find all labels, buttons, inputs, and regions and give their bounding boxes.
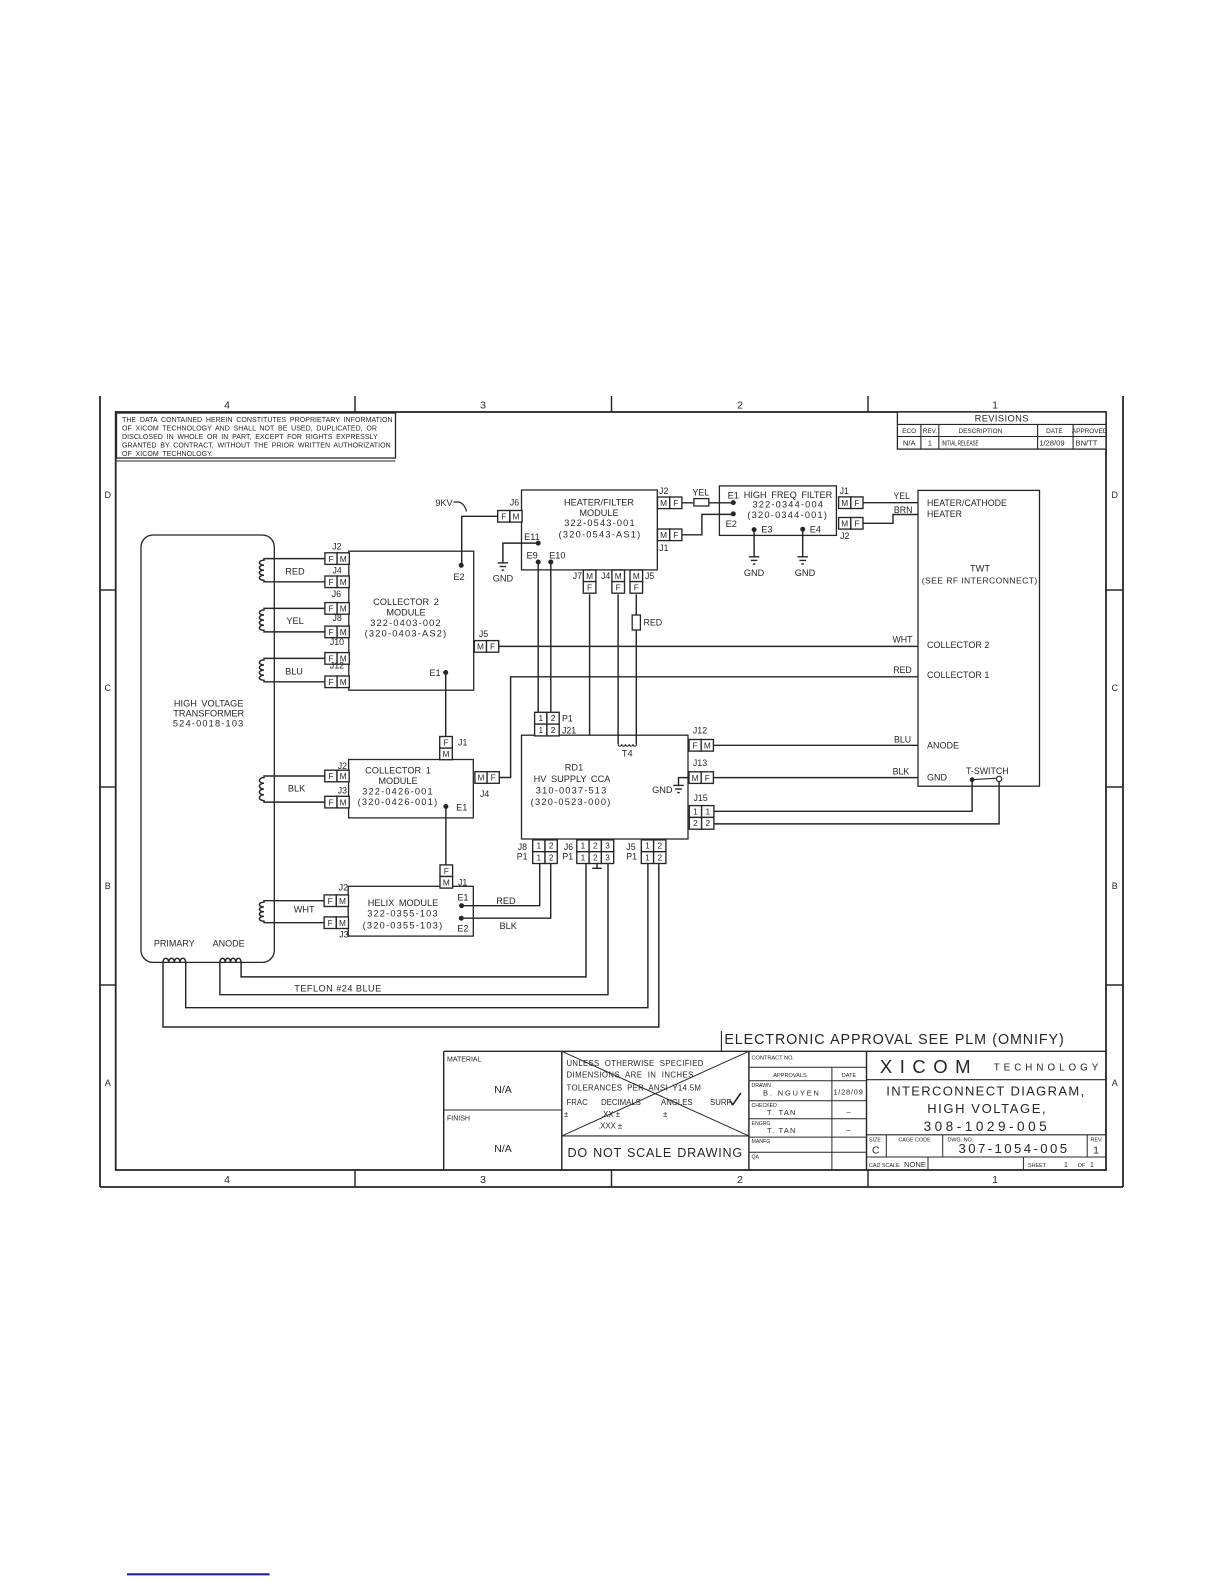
svg-text:M: M	[340, 771, 347, 781]
svg-text:.XXX ±: .XXX ±	[598, 1122, 623, 1131]
connector P1/J21 (RD1 top)	[535, 712, 547, 724]
svg-text:±: ±	[564, 1110, 569, 1119]
svg-text:.XX ±: .XX ±	[601, 1110, 621, 1119]
svg-text:REV.: REV.	[923, 428, 938, 435]
svg-text:BLU: BLU	[894, 734, 911, 744]
svg-text:1: 1	[992, 400, 998, 412]
svg-text:M: M	[340, 577, 347, 587]
terminal E4 of HF filter with ground	[800, 527, 805, 532]
svg-text:APPROVALS: APPROVALS	[773, 1073, 807, 1079]
svg-text:1: 1	[1090, 1162, 1094, 1169]
wire: YEL heater line (HF filter J1 to TWT)	[863, 502, 918, 504]
svg-text:F: F	[328, 918, 333, 928]
wire: RD1 J6/P1 pin3 to ANODE winding left lead	[220, 863, 608, 995]
svg-text:F: F	[444, 866, 449, 876]
svg-text:QA: QA	[752, 1154, 760, 1160]
svg-text:J2: J2	[840, 531, 849, 541]
svg-text:M: M	[443, 877, 450, 887]
termination stub on RD1 J6/P1 pin2	[596, 863, 598, 868]
svg-text:M: M	[692, 773, 699, 783]
svg-text:322-0403-002: 322-0403-002	[370, 618, 442, 628]
svg-text:E9: E9	[526, 550, 537, 560]
svg-text:BN/TT: BN/TT	[1076, 439, 1098, 448]
svg-text:J5: J5	[626, 842, 635, 852]
svg-text:J1: J1	[458, 877, 467, 887]
svg-text:F: F	[328, 896, 333, 906]
svg-text:E2: E2	[453, 572, 464, 582]
connector J1 (heater/filter right, M/F)	[658, 529, 670, 541]
wire: heater/filter J1 to HF filter E2	[682, 514, 733, 534]
svg-text:INITIAL RELEASE: INITIAL RELEASE	[942, 438, 979, 447]
svg-text:J5: J5	[645, 571, 654, 581]
svg-text:2: 2	[705, 818, 710, 828]
ground GND (E4)	[798, 556, 808, 558]
svg-text:THE DATA CONTAINED HEREIN CONS: THE DATA CONTAINED HEREIN CONSTITUTES PR…	[122, 417, 393, 424]
svg-text:GND: GND	[744, 568, 765, 578]
svg-text:J13: J13	[693, 758, 707, 768]
svg-text:J12: J12	[330, 661, 344, 671]
svg-text:RD1: RD1	[565, 763, 583, 773]
svg-text:J10: J10	[330, 637, 344, 647]
svg-text:COLLECTOR 2: COLLECTOR 2	[927, 640, 989, 650]
svg-text:B: B	[1112, 881, 1118, 891]
svg-text:M: M	[340, 677, 347, 687]
module: TWT (SEE RF INTERCONNECT)	[918, 490, 1040, 786]
svg-text:E1: E1	[457, 893, 468, 903]
svg-text:1/28/09: 1/28/09	[1039, 439, 1064, 448]
svg-text:M: M	[339, 918, 346, 928]
wire: collector1 E1 to helix J1	[445, 807, 447, 865]
svg-text:C: C	[1112, 683, 1119, 693]
wire: RD1 J6/P1 pin1 to ANODE winding right lead	[241, 863, 586, 977]
svg-text:–: –	[847, 1126, 851, 1135]
svg-text:F: F	[854, 498, 859, 508]
svg-text:T4: T4	[622, 749, 633, 759]
terminal E1 of collector 2 module	[443, 670, 448, 675]
svg-text:BLK: BLK	[288, 784, 306, 794]
ground GND (E3)	[749, 556, 759, 558]
svg-text:DIMENSIONS ARE IN INCHES: DIMENSIONS ARE IN INCHES	[567, 1071, 694, 1080]
svg-text:4: 4	[224, 400, 230, 412]
svg-text:F: F	[587, 583, 592, 593]
svg-text:F: F	[328, 677, 333, 687]
svg-text:1: 1	[693, 806, 698, 816]
svg-text:F: F	[501, 512, 506, 522]
svg-text:E10: E10	[549, 550, 565, 560]
ground GND (heater/filter E11)	[498, 562, 508, 564]
svg-text:M: M	[841, 498, 848, 508]
svg-text:OF: OF	[1078, 1163, 1086, 1169]
svg-text:BLU: BLU	[285, 666, 303, 676]
svg-text:±: ±	[663, 1110, 668, 1119]
svg-text:(320-0543-AS1): (320-0543-AS1)	[559, 529, 642, 539]
svg-text:HIGH VOLTAGE: HIGH VOLTAGE	[174, 699, 244, 709]
svg-text:FINISH: FINISH	[447, 1116, 470, 1123]
wire: T-switch NO contact to RD1 J15 pin 2	[714, 782, 999, 824]
svg-text:F: F	[673, 498, 678, 508]
svg-text:P1: P1	[562, 713, 573, 723]
svg-text:TECHNOLOGY: TECHNOLOGY	[994, 1063, 1103, 1074]
svg-text:DATE: DATE	[842, 1073, 857, 1079]
svg-text:ANODE: ANODE	[213, 939, 245, 949]
svg-text:J3: J3	[339, 930, 348, 940]
svg-text:F: F	[673, 530, 678, 540]
svg-text:INTERCONNECT DIAGRAM,: INTERCONNECT DIAGRAM,	[886, 1084, 1085, 1099]
svg-text:HV SUPPLY CCA: HV SUPPLY CCA	[534, 774, 612, 784]
wire: heater/filter J5 to T4 (RED sleeve)	[635, 594, 637, 744]
svg-text:T. TAN: T. TAN	[767, 1108, 797, 1117]
module: HEATER/FILTER MODULE 322-0543-001	[522, 490, 658, 570]
svg-text:J8: J8	[518, 842, 527, 852]
ferrite bead YEL	[694, 499, 709, 506]
svg-text:ECO: ECO	[902, 428, 916, 435]
svg-text:4: 4	[224, 1174, 230, 1186]
svg-text:YEL: YEL	[893, 491, 910, 501]
svg-text:1: 1	[928, 439, 932, 448]
svg-text:YEL: YEL	[286, 616, 303, 626]
winding BLK (transformer to collector1 J2/J3)	[259, 776, 324, 802]
svg-text:(320-0523-000): (320-0523-000)	[531, 797, 612, 807]
svg-text:N/A: N/A	[903, 439, 917, 448]
svg-text:(SEE RF INTERCONNECT): (SEE RF INTERCONNECT)	[922, 576, 1038, 586]
svg-text:ANODE: ANODE	[927, 741, 959, 751]
svg-text:SURF.: SURF.	[710, 1098, 733, 1107]
svg-text:9KV: 9KV	[435, 498, 453, 508]
svg-text:WHT: WHT	[892, 634, 913, 644]
wire: BLU anode line (RD1 J12 to TWT)	[713, 744, 918, 746]
wire: heater/filter J4 to T4	[617, 594, 619, 744]
svg-text:HIGH VOLTAGE,: HIGH VOLTAGE,	[927, 1101, 1047, 1116]
winding YEL (transformer to collector2 J6/J8)	[259, 608, 324, 632]
svg-text:2: 2	[693, 818, 698, 828]
svg-text:2: 2	[737, 1174, 743, 1186]
svg-text:DO NOT SCALE DRAWING: DO NOT SCALE DRAWING	[567, 1146, 742, 1160]
svg-text:F: F	[490, 642, 495, 652]
svg-text:P1: P1	[626, 852, 637, 862]
svg-text:524-0018-103: 524-0018-103	[173, 718, 245, 728]
sleeve RED on J5 wire	[632, 615, 640, 630]
svg-text:–: –	[847, 1108, 851, 1117]
connector J3 (helix, F/M)	[324, 917, 336, 929]
svg-text:J4: J4	[601, 571, 610, 581]
svg-text:UNLESS OTHERWISE SPECIFIED: UNLESS OTHERWISE SPECIFIED	[567, 1059, 704, 1068]
svg-text:F: F	[705, 773, 710, 783]
svg-text:M: M	[477, 642, 484, 652]
svg-text:DATE: DATE	[1046, 428, 1063, 435]
svg-text:F: F	[693, 741, 698, 751]
svg-text:2: 2	[593, 853, 598, 863]
svg-text:F: F	[443, 737, 448, 747]
wire: T-switch common to RD1 J15 pin 1	[714, 780, 972, 812]
svg-text:308-1029-005: 308-1029-005	[924, 1119, 1051, 1134]
svg-text:HEATER/CATHODE: HEATER/CATHODE	[927, 498, 1007, 508]
svg-text:DECIMALS: DECIMALS	[601, 1098, 641, 1107]
svg-text:F: F	[328, 554, 333, 564]
terminal E1 of helix module	[459, 903, 464, 908]
svg-text:1: 1	[538, 713, 543, 723]
svg-text:(320-0344-001): (320-0344-001)	[747, 510, 828, 520]
svg-text:C: C	[105, 683, 112, 693]
module: RD1 HV SUPPLY CCA 310-0037-513	[522, 735, 689, 839]
svg-text:COLLECTOR 1: COLLECTOR 1	[365, 765, 431, 775]
svg-text:CONTRACT NO.: CONTRACT NO.	[752, 1056, 795, 1062]
svg-text:J1: J1	[458, 737, 467, 747]
connector J2 (HF filter right, M/F)	[839, 518, 851, 530]
svg-text:310-0037-513: 310-0037-513	[536, 785, 608, 795]
svg-text:TWT: TWT	[970, 563, 990, 573]
svg-text:1: 1	[538, 725, 543, 735]
(scan artifact) blue underline	[127, 1573, 270, 1575]
svg-text:GND: GND	[795, 568, 816, 578]
svg-text:3: 3	[605, 853, 610, 863]
svg-text:1: 1	[645, 853, 650, 863]
svg-text:MODULE: MODULE	[579, 508, 618, 518]
winding WHT (transformer to helix J2/J3)	[259, 901, 324, 923]
svg-text:J1: J1	[659, 543, 668, 553]
svg-text:NONE: NONE	[904, 1160, 926, 1169]
svg-text:B. NGUYEN: B. NGUYEN	[763, 1088, 821, 1097]
svg-text:SHEET: SHEET	[1028, 1163, 1047, 1169]
svg-text:1: 1	[537, 841, 542, 851]
transformer T1: HIGH VOLTAGE TRANSFORMER 524-0018-103	[141, 535, 274, 962]
svg-text:E4: E4	[810, 524, 821, 534]
svg-text:3: 3	[605, 841, 610, 851]
svg-text:(320-0355-103): (320-0355-103)	[363, 921, 444, 931]
svg-text:J8: J8	[333, 613, 342, 623]
svg-text:M: M	[443, 749, 450, 759]
wire: E10 to RD1 P1 pin 2	[550, 562, 552, 712]
svg-text:HEATER: HEATER	[927, 509, 962, 519]
svg-text:M: M	[704, 741, 711, 751]
svg-text:ANGLES: ANGLES	[661, 1098, 693, 1107]
wire: BLK ground line (RD1 J13 to TWT)	[713, 777, 918, 779]
svg-text:GND: GND	[652, 785, 673, 795]
svg-text:COLLECTOR 2: COLLECTOR 2	[373, 597, 439, 607]
svg-text:TRANSFORMER: TRANSFORMER	[173, 708, 244, 718]
svg-text:2: 2	[657, 841, 662, 851]
wire: 9KV net from J6 heater/filter to E2 collector 2	[462, 516, 498, 565]
svg-text:1: 1	[1093, 1145, 1099, 1157]
terminal E3 of HF filter with ground	[752, 527, 757, 532]
wire: WHT collector 2 line (J5 to TWT)	[498, 645, 918, 647]
svg-text:2: 2	[549, 853, 554, 863]
svg-text:J2: J2	[659, 486, 668, 496]
wire: RED collector 1 line (J4 to TWT)	[499, 677, 918, 778]
terminal E2 of collector 2 module	[459, 563, 464, 568]
connector J4 (collector 1 right, M/F)	[475, 772, 487, 784]
svg-text:F: F	[328, 797, 333, 807]
svg-text:J15: J15	[694, 793, 708, 803]
svg-text:REV.: REV.	[1090, 1138, 1102, 1144]
svg-text:M: M	[615, 571, 622, 581]
svg-text:M: M	[660, 498, 667, 508]
svg-text:WHT: WHT	[294, 905, 315, 915]
svg-text:M: M	[478, 773, 485, 783]
svg-text:J2: J2	[332, 541, 341, 551]
svg-text:M: M	[339, 896, 346, 906]
svg-text:322-0426-001: 322-0426-001	[362, 786, 434, 796]
svg-text:2: 2	[657, 853, 662, 863]
svg-text:A: A	[1112, 1078, 1118, 1088]
svg-text:SIZE: SIZE	[869, 1138, 881, 1144]
svg-text:P1: P1	[517, 852, 528, 862]
svg-text:E1: E1	[728, 490, 739, 500]
svg-text:HEATER/FILTER: HEATER/FILTER	[564, 497, 634, 507]
svg-text:M: M	[660, 530, 667, 540]
svg-text:BLK: BLK	[893, 766, 910, 776]
svg-text:FRAC: FRAC	[567, 1098, 589, 1107]
svg-text:APPROVED: APPROVED	[1072, 428, 1108, 435]
svg-text:1: 1	[537, 853, 542, 863]
svg-text:J12: J12	[693, 725, 707, 735]
svg-text:DESCRIPTION: DESCRIPTION	[959, 428, 1003, 435]
svg-text:J4: J4	[480, 789, 489, 799]
svg-text:F: F	[491, 773, 496, 783]
svg-text:322-0543-001: 322-0543-001	[564, 518, 636, 528]
svg-text:E1: E1	[456, 802, 467, 812]
svg-text:J6: J6	[510, 498, 519, 508]
svg-text:M: M	[340, 797, 347, 807]
wire: RED helix E1 to RD1 J8/P1 pin1	[462, 863, 540, 906]
module: HIGH FREQ FILTER 322-0344-004	[719, 486, 836, 536]
svg-text:322-0344-004: 322-0344-004	[752, 499, 824, 509]
svg-text:REVISIONS: REVISIONS	[975, 414, 1029, 424]
svg-text:GRANTED BY CONTRACT, WITHOUT T: GRANTED BY CONTRACT, WITHOUT THE PRIOR W…	[122, 443, 391, 450]
svg-text:1: 1	[581, 841, 586, 851]
svg-text:2: 2	[551, 725, 556, 735]
svg-text:MANFG: MANFG	[752, 1139, 771, 1145]
svg-text:COLLECTOR 1: COLLECTOR 1	[927, 670, 989, 680]
svg-text:TEFLON #24 BLUE: TEFLON #24 BLUE	[294, 984, 381, 994]
svg-text:F: F	[328, 577, 333, 587]
svg-text:B: B	[105, 881, 111, 891]
svg-text:RED: RED	[285, 566, 305, 576]
svg-text:(320-0403-AS2): (320-0403-AS2)	[365, 628, 448, 638]
svg-text:M: M	[340, 627, 347, 637]
svg-text:J1: J1	[840, 486, 849, 496]
svg-text:ELECTRONIC APPROVAL SEE PLM: ELECTRONIC APPROVAL SEE PLM (OMNIFY)	[724, 1032, 1064, 1048]
svg-text:322-0355-103: 322-0355-103	[367, 908, 439, 918]
svg-text:E2: E2	[726, 519, 737, 529]
svg-text:N/A: N/A	[494, 1143, 512, 1155]
winding RED (transformer to collector2 J2/J4)	[259, 559, 324, 582]
svg-text:MATERIAL: MATERIAL	[447, 1057, 482, 1064]
svg-text:1: 1	[992, 1174, 998, 1186]
svg-text:2: 2	[549, 841, 554, 851]
module: COLLECTOR 1 MODULE 322-0426-001	[349, 760, 474, 818]
module: HELIX MODULE 322-0355-103	[348, 886, 473, 936]
svg-text:PRIMARY: PRIMARY	[154, 939, 195, 949]
svg-text:E2: E2	[457, 924, 468, 934]
svg-text:3: 3	[480, 1174, 486, 1186]
svg-text:M: M	[513, 512, 520, 522]
svg-text:MODULE: MODULE	[386, 607, 425, 617]
svg-text:J21: J21	[562, 726, 576, 736]
wire: BLK helix E2 to RD1 J8/P1 pin2	[461, 863, 551, 918]
terminal E2 of helix module	[459, 916, 464, 921]
svg-text:J6: J6	[332, 589, 341, 599]
svg-text:D: D	[105, 490, 112, 500]
svg-text:M: M	[586, 571, 593, 581]
svg-text:J2: J2	[338, 761, 347, 771]
svg-text:BRN: BRN	[894, 505, 913, 515]
wire: RD1 J5/P1 pin2 to PRIMARY winding left lead	[163, 863, 659, 1027]
svg-text:D: D	[1112, 490, 1119, 500]
svg-text:HELIX MODULE: HELIX MODULE	[368, 898, 438, 908]
svg-text:2: 2	[737, 400, 743, 412]
svg-text:J7: J7	[573, 571, 582, 581]
svg-text:F: F	[854, 519, 859, 529]
svg-text:307-1054-005: 307-1054-005	[959, 1141, 1070, 1156]
svg-text:2: 2	[593, 841, 598, 851]
svg-text:1: 1	[705, 806, 710, 816]
svg-text:E1: E1	[429, 668, 440, 678]
wire: heater/filter J7 to RD1 top	[589, 594, 591, 735]
svg-text:GND: GND	[927, 773, 948, 783]
svg-text:RED: RED	[893, 665, 912, 675]
svg-text:1: 1	[1064, 1162, 1068, 1169]
svg-text:YEL: YEL	[692, 488, 709, 498]
svg-text:J5: J5	[479, 629, 488, 639]
ground GND (RD1 J13)	[679, 778, 690, 786]
svg-text:A: A	[105, 1078, 111, 1088]
svg-text:F: F	[616, 583, 621, 593]
svg-text:CAGE CODE: CAGE CODE	[898, 1138, 931, 1144]
svg-text:2: 2	[551, 713, 556, 723]
svg-text:3: 3	[480, 400, 486, 412]
svg-text:1: 1	[645, 841, 650, 851]
svg-text:J3: J3	[338, 786, 347, 796]
svg-text:BLK: BLK	[500, 921, 518, 931]
svg-text:1: 1	[581, 853, 586, 863]
svg-text:F: F	[328, 627, 333, 637]
svg-text:F: F	[634, 583, 639, 593]
winding BLU (transformer to collector2 J10/J12)	[259, 658, 324, 681]
svg-text:CAD SCALE: CAD SCALE	[869, 1163, 900, 1169]
svg-text:OF XICOM TECHNOLOGY AND SHALL: OF XICOM TECHNOLOGY AND SHALL NOT BE USE…	[122, 426, 377, 433]
svg-text:J4: J4	[333, 565, 342, 575]
svg-text:M: M	[340, 554, 347, 564]
connector J5 (heater/filter bottom, M/F stack)	[630, 570, 643, 582]
wire: E9 to RD1 P1 pin 1	[537, 562, 539, 712]
svg-text:(320-0426-001): (320-0426-001)	[358, 797, 439, 807]
svg-text:N/A: N/A	[494, 1084, 512, 1096]
svg-text:1/28/09: 1/28/09	[833, 1088, 863, 1097]
svg-text:M: M	[633, 571, 640, 581]
wire: collector2 E1 to collector1 J1	[445, 673, 447, 737]
svg-text:OF XICOM TECHNOLOGY.: OF XICOM TECHNOLOGY.	[122, 451, 213, 458]
svg-text:F: F	[328, 771, 333, 781]
svg-text:J6: J6	[564, 842, 573, 852]
svg-text:T. TAN: T. TAN	[767, 1126, 797, 1135]
svg-text:DISCLOSED IN WHOLE OR IN PART,: DISCLOSED IN WHOLE OR IN PART, EXCEPT FO…	[122, 434, 378, 441]
svg-text:MODULE: MODULE	[378, 776, 417, 786]
wire: BRN heater line (HF filter J2 to TWT)	[863, 515, 918, 524]
svg-text:T-SWITCH: T-SWITCH	[966, 766, 1009, 776]
wire: heater/filter J2 to HF filter E1 (YEL bead)	[682, 502, 733, 504]
svg-text:GND: GND	[493, 574, 514, 584]
svg-text:RED: RED	[644, 618, 663, 628]
svg-text:P1: P1	[562, 852, 573, 862]
svg-text:C: C	[872, 1145, 880, 1157]
inductor T4 (winding in RD1)	[618, 744, 637, 746]
connector J1 (collector 1 top, F/M stack)	[440, 737, 453, 749]
module: COLLECTOR 2 MODULE 322-0403-002	[349, 551, 474, 690]
svg-text:RED: RED	[496, 896, 516, 906]
wire: RD1 J5/P1 pin1 to PRIMARY winding right lead	[186, 863, 648, 1008]
svg-text:XICOM: XICOM	[880, 1056, 978, 1077]
svg-text:J2: J2	[339, 882, 348, 892]
